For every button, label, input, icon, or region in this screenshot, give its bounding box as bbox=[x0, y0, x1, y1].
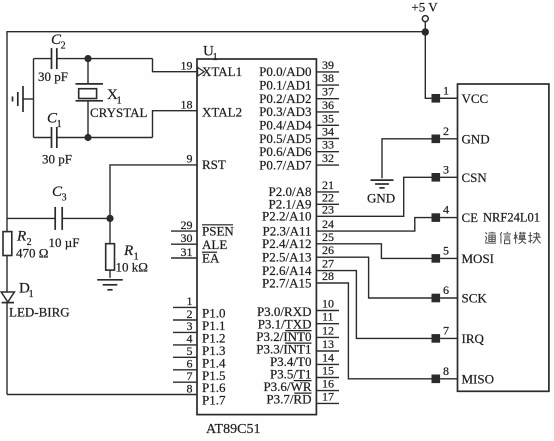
svg-text:NRF24L01: NRF24L01 bbox=[483, 210, 540, 224]
wire C3 rail bbox=[7, 217, 55, 219]
svg-text:IRQ: IRQ bbox=[462, 331, 485, 346]
svg-text:MISO: MISO bbox=[462, 371, 495, 386]
capacitor C3 bbox=[49, 184, 80, 250]
U1 pin 10 P3.0/RXD bbox=[257, 297, 339, 320]
wire module GND pin to ground bbox=[382, 139, 432, 179]
svg-text:1: 1 bbox=[443, 83, 449, 97]
U1 pin 34 P0.5/AD5 bbox=[259, 125, 339, 146]
svg-text:38: 38 bbox=[322, 71, 334, 85]
ground (R1) bbox=[97, 279, 123, 281]
module pin 6 SCK bbox=[432, 283, 488, 306]
ground (crystal caps) bbox=[13, 86, 34, 112]
svg-text:1: 1 bbox=[29, 289, 34, 300]
svg-text:EA: EA bbox=[202, 251, 220, 266]
svg-text:R: R bbox=[16, 229, 26, 245]
svg-text:1: 1 bbox=[213, 52, 218, 63]
svg-text:39: 39 bbox=[322, 58, 334, 72]
U1 pin 4 P1.3 bbox=[173, 332, 225, 358]
wire to XTAL2 pin 18 bbox=[153, 111, 198, 138]
svg-text:6: 6 bbox=[443, 283, 449, 297]
svg-text:1: 1 bbox=[57, 119, 62, 130]
label 通信模块 (communication module) bbox=[485, 232, 496, 244]
svg-text:18: 18 bbox=[181, 98, 193, 112]
svg-text:+5 V: +5 V bbox=[411, 0, 438, 15]
svg-text:37: 37 bbox=[322, 85, 334, 99]
svg-text:P0.7/AD7: P0.7/AD7 bbox=[259, 157, 312, 172]
svg-text:11: 11 bbox=[322, 310, 334, 324]
U1 pin 5 P1.4 bbox=[173, 344, 226, 370]
U1 pin 29 PSEN bbox=[171, 218, 197, 232]
svg-text:3: 3 bbox=[443, 162, 449, 176]
wire top rail (+5V to top-left corner) bbox=[7, 31, 425, 33]
svg-text:R: R bbox=[123, 243, 133, 259]
U1 pin 1 P1.0 bbox=[173, 294, 225, 320]
svg-text:P1.7: P1.7 bbox=[202, 393, 226, 408]
svg-text:470 Ω: 470 Ω bbox=[16, 246, 48, 261]
ground (module GND) bbox=[371, 179, 394, 181]
module pin 5 MOSI bbox=[432, 243, 495, 266]
U1 pin 18 XTAL2 bbox=[181, 98, 193, 112]
svg-text:23: 23 bbox=[322, 202, 334, 216]
svg-text:GND: GND bbox=[462, 131, 490, 146]
wire to XTAL1 pin 19 bbox=[153, 59, 198, 72]
junction XTAL1/crystal bbox=[84, 55, 91, 62]
svg-text:9: 9 bbox=[187, 152, 193, 166]
resistor R2 bbox=[3, 229, 48, 261]
svg-text:2: 2 bbox=[443, 124, 449, 138]
U1 pin 14 P3.4/T0 bbox=[270, 350, 339, 369]
module pin 4 CE bbox=[432, 203, 479, 226]
U1 pin 19 XTAL1 bbox=[181, 59, 193, 73]
module NRF24L01 body bbox=[458, 84, 549, 391]
junction +5V rail bbox=[422, 28, 429, 35]
U1 pin 11 P3.1/TXD bbox=[258, 310, 339, 332]
IC U1 AT89C51 body bbox=[197, 59, 316, 415]
capacitor C1 bbox=[42, 111, 72, 167]
wire left rail (corner down to R2) bbox=[6, 31, 8, 232]
module pin 2 GND bbox=[432, 124, 490, 147]
wire +5V down to VCC pin bbox=[425, 32, 457, 98]
svg-text:33: 33 bbox=[322, 138, 334, 152]
svg-text:28: 28 bbox=[322, 269, 334, 283]
U1 pin 17 P3.7/RD bbox=[266, 389, 339, 406]
wire cap branch vertical bbox=[33, 59, 35, 138]
svg-text:MOSI: MOSI bbox=[462, 251, 495, 266]
svg-text:5: 5 bbox=[443, 243, 449, 257]
U1 pin 25 P2.4/A12 bbox=[262, 230, 431, 259]
U1 pin 8 P1.7 bbox=[187, 381, 226, 407]
svg-text:P2.2/A10: P2.2/A10 bbox=[262, 209, 311, 224]
svg-text:10 kΩ: 10 kΩ bbox=[116, 260, 148, 275]
U1 pin 33 P0.6/AD6 bbox=[259, 138, 339, 159]
module pin 3 CSN bbox=[432, 162, 488, 185]
crystal X1 bbox=[76, 59, 148, 138]
svg-text:29: 29 bbox=[181, 218, 193, 232]
wire C2 rail (top) bbox=[34, 58, 52, 60]
svg-text:31: 31 bbox=[181, 245, 193, 259]
junction RST/C3/R1 bbox=[106, 215, 113, 222]
U1 pin 16 P3.6/WR bbox=[263, 377, 339, 394]
resistor R1 bbox=[106, 218, 148, 277]
svg-text:4: 4 bbox=[443, 203, 449, 217]
module pin 7 IRQ bbox=[432, 323, 485, 346]
svg-text:2: 2 bbox=[61, 41, 66, 52]
svg-text:CRYSTAL: CRYSTAL bbox=[90, 105, 148, 120]
U1 pin 2 P1.1 bbox=[173, 307, 225, 333]
svg-text:25: 25 bbox=[322, 230, 334, 244]
capacitor C2 bbox=[38, 32, 68, 84]
svg-text:30: 30 bbox=[181, 231, 193, 245]
U1 pin 39 P0.0/AD0 bbox=[259, 58, 339, 79]
svg-text:30 pF: 30 pF bbox=[42, 152, 72, 167]
wire bottom rail to P1.7 pin 8 bbox=[7, 394, 197, 396]
svg-text:10: 10 bbox=[322, 297, 334, 311]
wire D1 to bottom-left corner bbox=[6, 303, 8, 395]
svg-text:32: 32 bbox=[322, 151, 334, 165]
svg-text:12: 12 bbox=[322, 323, 334, 337]
svg-text:26: 26 bbox=[322, 243, 334, 257]
U1 pin 6 P1.5 bbox=[173, 357, 225, 383]
U1 pin 35 P0.4/AD4 bbox=[259, 111, 339, 132]
svg-text:8: 8 bbox=[187, 381, 193, 395]
U1 pin 13 P3.3/INT1 bbox=[256, 337, 339, 357]
svg-text:17: 17 bbox=[322, 389, 334, 403]
U1 pin 22 P2.1/A9 bbox=[269, 190, 339, 211]
svg-text:CE: CE bbox=[462, 210, 479, 225]
U1 pin 9 RST bbox=[187, 152, 193, 166]
wire RST pin 9 bbox=[110, 165, 197, 219]
U1 pin 31 EA bbox=[171, 245, 197, 259]
U1 pin 23 P2.2/A10 bbox=[262, 177, 431, 223]
diode D1 LED-BIRG bbox=[1, 281, 69, 320]
wire R2 to D1 bbox=[6, 256, 8, 293]
svg-text:CSN: CSN bbox=[462, 170, 488, 185]
U1 pin 32 P0.7/AD7 bbox=[259, 151, 339, 172]
svg-text:LED-BIRG: LED-BIRG bbox=[9, 305, 70, 320]
svg-text:P3.7/RD: P3.7/RD bbox=[266, 392, 311, 407]
svg-text:GND: GND bbox=[367, 190, 395, 205]
node +5V supply bbox=[411, 0, 438, 29]
U1 pin 3 P1.2 bbox=[173, 319, 225, 345]
svg-text:19: 19 bbox=[181, 59, 193, 73]
svg-text:30 pF: 30 pF bbox=[38, 69, 68, 84]
svg-text:XTAL1: XTAL1 bbox=[202, 64, 242, 79]
U1 pin 30 ALE bbox=[171, 231, 197, 245]
U1 pin 21 P2.0/A8 bbox=[269, 178, 339, 199]
U1 pin 37 P0.2/AD2 bbox=[259, 85, 339, 106]
XTAL1 clock input marker bbox=[198, 67, 205, 76]
svg-text:10 µF: 10 µF bbox=[49, 235, 80, 250]
svg-text:7: 7 bbox=[443, 323, 449, 337]
module pin 8 MISO bbox=[432, 364, 495, 387]
svg-text:35: 35 bbox=[322, 111, 334, 125]
svg-text:15: 15 bbox=[322, 364, 334, 378]
svg-text:SCK: SCK bbox=[462, 291, 488, 306]
svg-text:RST: RST bbox=[202, 157, 226, 172]
junction XTAL2/crystal bbox=[84, 134, 91, 141]
U1 pin 36 P0.3/AD3 bbox=[259, 98, 339, 119]
U1 pin 28 P2.7/A15 bbox=[262, 269, 431, 379]
U1 pin 24 P2.3/A11 bbox=[263, 217, 432, 238]
U1 pin 26 P2.5/A13 bbox=[262, 243, 431, 298]
U1 pin 7 P1.6 bbox=[173, 369, 226, 395]
svg-text:P2.7/A15: P2.7/A15 bbox=[262, 275, 311, 290]
svg-text:36: 36 bbox=[322, 98, 334, 112]
svg-text:14: 14 bbox=[322, 350, 334, 364]
U1 pin 12 P3.2/INT0 bbox=[256, 323, 339, 344]
wire C1 rail (bottom) bbox=[34, 137, 52, 139]
svg-text:AT89C51: AT89C51 bbox=[206, 422, 260, 436]
svg-text:34: 34 bbox=[322, 125, 334, 139]
U1 pin 38 P0.1/AD1 bbox=[259, 71, 339, 92]
svg-text:3: 3 bbox=[62, 193, 67, 204]
module pin 1 VCC bbox=[432, 83, 489, 106]
svg-text:VCC: VCC bbox=[462, 91, 489, 106]
svg-text:XTAL2: XTAL2 bbox=[202, 105, 242, 120]
svg-text:13: 13 bbox=[322, 337, 334, 351]
svg-text:8: 8 bbox=[443, 364, 449, 378]
U1 pin 15 P3.5/T1 bbox=[270, 364, 339, 382]
U1 pin 27 P2.6/A14 bbox=[262, 257, 431, 339]
